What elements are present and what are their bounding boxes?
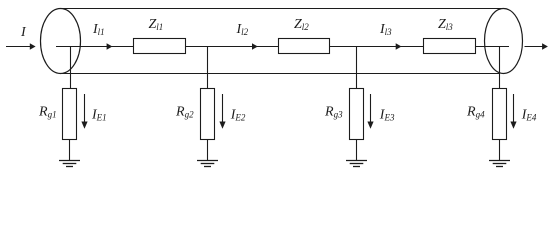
current arrow IE3 bbox=[367, 94, 373, 129]
ground 4 bbox=[489, 161, 510, 167]
input current arrow I bbox=[6, 43, 36, 49]
resistor Rg1 bbox=[63, 89, 77, 140]
svg-text:Rg4: Rg4 bbox=[466, 105, 485, 120]
wire node1 dropper bbox=[70, 47, 72, 89]
wire Rg3 to ground bbox=[356, 140, 358, 161]
svg-text:IE2: IE2 bbox=[230, 108, 246, 123]
svg-text:Rg1: Rg1 bbox=[38, 105, 57, 120]
wire Zl1 to Zl2 with current arrow Il2 bbox=[186, 43, 279, 49]
ground 2 bbox=[197, 161, 218, 167]
current arrow IE2 bbox=[219, 94, 225, 129]
resistor Rg4 bbox=[493, 89, 507, 140]
wire Zl3 to right cap bbox=[476, 46, 510, 48]
wire node3 dropper bbox=[356, 47, 358, 89]
svg-text:Il2: Il2 bbox=[236, 22, 249, 37]
cylinder right end cap bbox=[485, 9, 523, 74]
cylinder top wire bbox=[61, 8, 504, 10]
wire node2 dropper bbox=[207, 47, 209, 89]
wire Rg4 to ground bbox=[499, 140, 501, 161]
cylinder bottom wire bbox=[61, 73, 500, 75]
cylinder left end cap bbox=[41, 9, 81, 74]
resistor Rg3 bbox=[350, 89, 364, 140]
wire node4 dropper bbox=[499, 47, 501, 89]
ground 3 bbox=[346, 161, 367, 167]
svg-text:Il3: Il3 bbox=[379, 22, 392, 37]
output current arrow bbox=[525, 43, 548, 49]
svg-text:IE1: IE1 bbox=[91, 108, 107, 123]
resistor Rg2 bbox=[201, 89, 215, 140]
current arrow IE4 bbox=[510, 94, 516, 129]
current arrow IE1 bbox=[81, 94, 87, 129]
svg-text:I: I bbox=[20, 25, 27, 40]
wire Rg1 to ground bbox=[69, 140, 71, 161]
impedance Zl3 bbox=[424, 39, 476, 54]
svg-text:Zl1: Zl1 bbox=[149, 17, 164, 32]
ground 1 bbox=[59, 161, 80, 167]
svg-text:IE3: IE3 bbox=[379, 108, 395, 123]
svg-text:Il1: Il1 bbox=[92, 22, 105, 37]
wire Zl2 to Zl3 with current arrow Il3 bbox=[330, 43, 424, 49]
svg-text:IE4: IE4 bbox=[521, 108, 537, 123]
svg-text:Rg2: Rg2 bbox=[175, 105, 194, 120]
svg-text:Zl2: Zl2 bbox=[294, 17, 309, 32]
impedance Zl1 bbox=[134, 39, 186, 54]
wire Rg2 to ground bbox=[207, 140, 209, 161]
svg-text:Zl3: Zl3 bbox=[438, 17, 453, 32]
wire node1 to Zl1 with current arrow Il1 bbox=[56, 43, 134, 49]
impedance Zl2 bbox=[279, 39, 330, 54]
svg-text:Rg3: Rg3 bbox=[324, 105, 343, 120]
